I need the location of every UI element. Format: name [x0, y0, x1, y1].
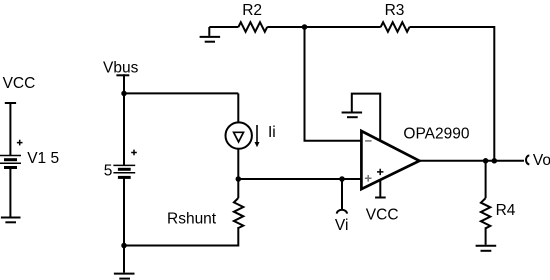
svg-text:OPA2990: OPA2990 [403, 126, 469, 143]
svg-text:R2: R2 [242, 2, 262, 19]
svg-text:R3: R3 [385, 2, 405, 19]
svg-text:Vi: Vi [335, 217, 349, 234]
svg-text:VCC: VCC [3, 75, 36, 92]
svg-text:Vo: Vo [533, 152, 550, 169]
svg-text:Ii: Ii [268, 124, 276, 141]
svg-text:5: 5 [104, 162, 113, 179]
svg-text:VCC: VCC [366, 206, 399, 223]
svg-text:V1 5: V1 5 [27, 150, 59, 167]
svg-text:Vbus: Vbus [103, 60, 139, 77]
svg-text:R4: R4 [496, 202, 516, 219]
svg-text:Rshunt: Rshunt [167, 210, 217, 227]
